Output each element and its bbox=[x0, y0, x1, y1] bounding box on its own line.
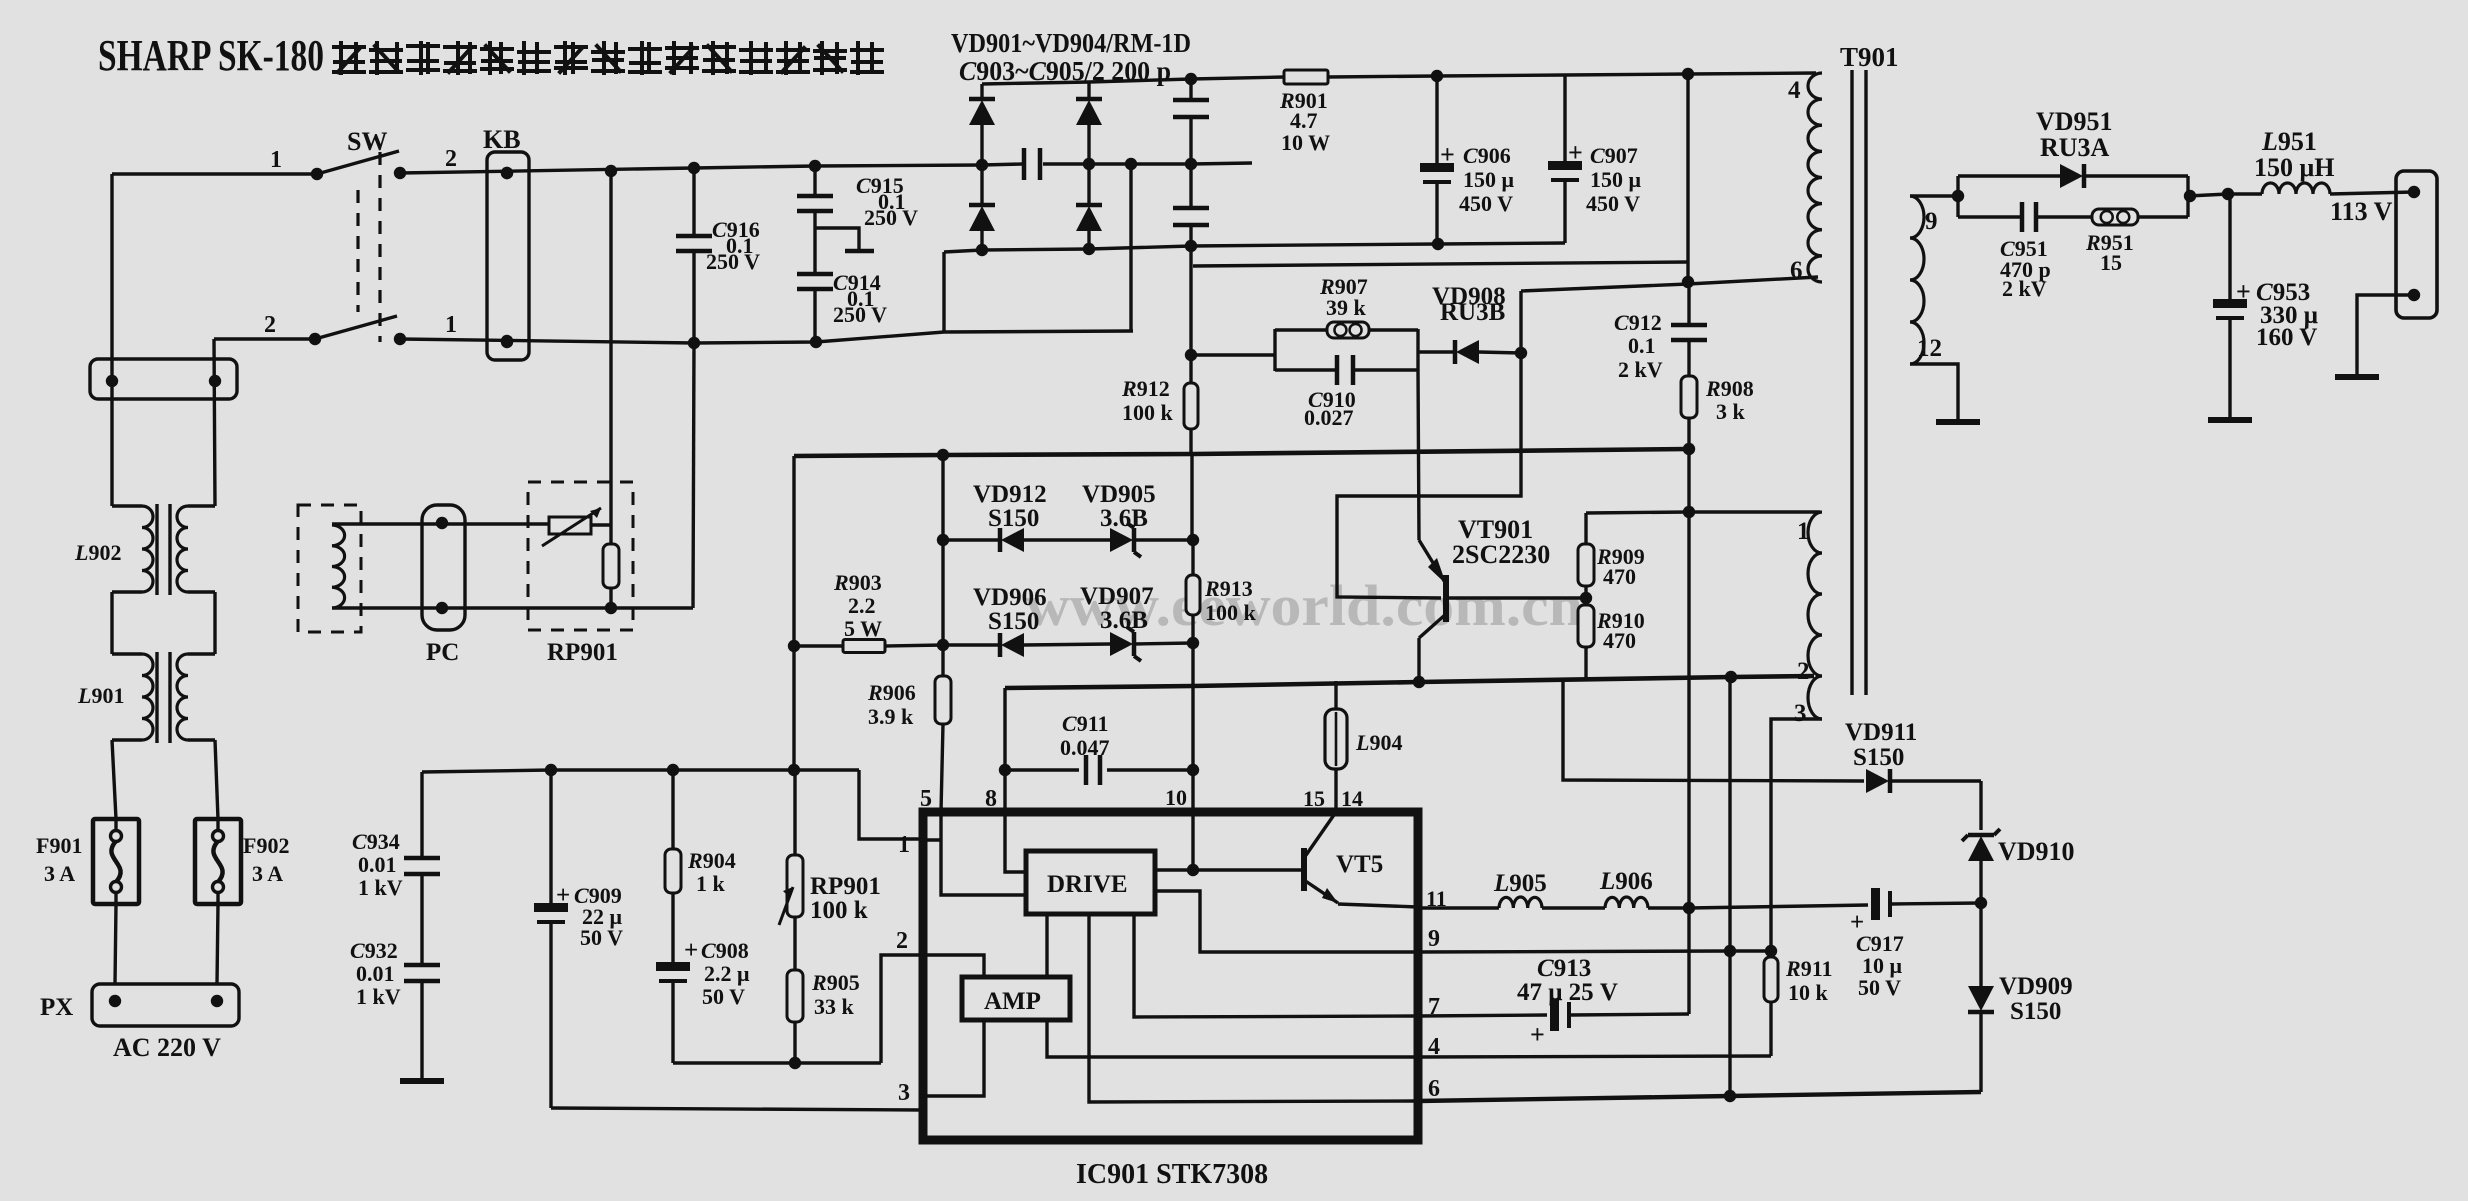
wire connector lower pin to ground bbox=[2357, 295, 2414, 375]
zener VD910 bbox=[1962, 829, 2075, 903]
svg-text:2.2: 2.2 bbox=[848, 593, 876, 618]
diode VD904 bbox=[1076, 164, 1102, 249]
inductor L902 bbox=[74, 506, 215, 592]
wire row y1063 bbox=[673, 1061, 881, 1064]
wire corner to VD910 bbox=[1979, 781, 1982, 830]
capacitor C914 bbox=[797, 270, 887, 342]
svg-text:100 k: 100 k bbox=[810, 897, 868, 924]
line filter box bbox=[90, 359, 237, 399]
svg-text:0.027: 0.027 bbox=[1304, 405, 1354, 430]
svg-text:47 μ 25 V: 47 μ 25 V bbox=[1517, 979, 1618, 1006]
wire pin7 row with C913 bbox=[1418, 955, 1689, 1049]
svg-text:0.047: 0.047 bbox=[1060, 735, 1110, 760]
fuse F901 3A bbox=[36, 819, 139, 904]
transformer T901 pin3 tail bbox=[1771, 676, 1822, 951]
wire riser x693 to rail B bbox=[693, 343, 694, 608]
transformer T901 core bbox=[1850, 70, 1853, 695]
inductor L904 bbox=[1325, 681, 1402, 812]
svg-text:15: 15 bbox=[1303, 786, 1325, 811]
node top rail junctions bbox=[1185, 73, 1197, 85]
svg-text:S150: S150 bbox=[1853, 744, 1904, 771]
wire x1730 vertical bbox=[1728, 677, 1731, 1096]
capacitor C912 0.1 2kV bbox=[1614, 285, 1707, 382]
node x1688 pin6 bbox=[1682, 276, 1694, 288]
node row684 emitter junction bbox=[1413, 676, 1425, 688]
wire riser x1688 top rail to pin6 line bbox=[1686, 74, 1689, 282]
svg-text:SW: SW bbox=[347, 127, 387, 156]
ground below C953 bbox=[2208, 417, 2252, 423]
VD951 block left stub bbox=[1956, 176, 1959, 217]
svg-text:VD911: VD911 bbox=[1845, 719, 1917, 746]
svg-text:14: 14 bbox=[1341, 786, 1363, 811]
svg-text:6: 6 bbox=[1428, 1076, 1440, 1102]
svg-text:DRIVE: DRIVE bbox=[1047, 871, 1128, 898]
capacitor C907 150u 450V bbox=[1548, 75, 1642, 243]
parallel combo brackets bbox=[1273, 329, 1276, 371]
wire pin3 row bbox=[551, 1108, 923, 1110]
switch SW pole 1 bbox=[270, 146, 457, 180]
svg-text:VD905: VD905 bbox=[1082, 481, 1156, 508]
svg-text:C913: C913 bbox=[1537, 955, 1591, 982]
svg-text:1: 1 bbox=[270, 147, 282, 173]
capacitor C906 150u 450V bbox=[1420, 76, 1515, 244]
svg-text:150 μ: 150 μ bbox=[1590, 167, 1642, 192]
node x1193 row643 bbox=[1187, 637, 1199, 649]
wire pin9 to VD951 block bbox=[1910, 194, 1958, 197]
svg-text:2: 2 bbox=[896, 928, 908, 954]
wire T901 pin6 line bbox=[1521, 277, 1818, 291]
capacitor C932 0.01 1kV bbox=[350, 938, 440, 1079]
svg-text:39 k: 39 k bbox=[1326, 295, 1367, 320]
svg-text:12: 12 bbox=[1917, 335, 1942, 362]
svg-text:470: 470 bbox=[1603, 628, 1636, 653]
svg-text:250 V: 250 V bbox=[833, 302, 887, 327]
svg-text:8: 8 bbox=[985, 786, 997, 812]
wire right vertical x215 upper bbox=[214, 339, 215, 506]
thermistor in RP901 box bbox=[542, 508, 611, 546]
svg-text:160 V: 160 V bbox=[2256, 324, 2317, 351]
wire line B bbox=[1193, 262, 1688, 266]
svg-text:C907: C907 bbox=[1590, 143, 1638, 168]
ground stub tick bbox=[845, 249, 874, 254]
wire R912 top node line bbox=[1193, 353, 1275, 356]
wire x943 vertical bbox=[941, 455, 944, 540]
wire DRIVE to pin9 row bbox=[1155, 891, 1418, 952]
svg-text:RU3B: RU3B bbox=[1440, 299, 1505, 326]
svg-text:3: 3 bbox=[1794, 700, 1807, 727]
node base pin10 bbox=[1187, 864, 1199, 876]
wire pin2 approach bbox=[881, 955, 923, 1063]
svg-text:33 k: 33 k bbox=[814, 994, 855, 1019]
resistor R910 470 bbox=[1578, 586, 1645, 679]
capacitor C909 22u 50V bbox=[534, 770, 623, 1108]
connector PX AC 220V bbox=[40, 984, 239, 1062]
svg-text:10 k: 10 k bbox=[1788, 980, 1829, 1005]
wire riser C913 to pin11 row bbox=[1687, 908, 1690, 1014]
svg-text:5: 5 bbox=[920, 786, 932, 812]
resistor R911 10k bbox=[1764, 951, 1832, 1056]
transistor VT5 bbox=[1301, 812, 1418, 907]
node x1689 junctions bbox=[1683, 443, 1695, 455]
svg-text:+: + bbox=[1440, 140, 1455, 169]
svg-text:100 k: 100 k bbox=[1122, 400, 1174, 425]
wire block to L951 node bbox=[2188, 194, 2228, 196]
inductor L951 150uH bbox=[2228, 127, 2414, 194]
svg-text:2: 2 bbox=[264, 312, 276, 338]
fuse F902 3A bbox=[195, 819, 289, 904]
potentiometer RP901 100k bbox=[779, 770, 881, 925]
svg-text:113 V: 113 V bbox=[2330, 197, 2393, 226]
svg-text:9: 9 bbox=[1428, 926, 1440, 952]
wire long row y684 bbox=[1005, 676, 1814, 688]
dashed box RP901 thermistor bbox=[528, 482, 633, 630]
switch SW pole 2 bbox=[264, 312, 457, 345]
resistor R906 3.9k bbox=[867, 645, 951, 812]
svg-text:450 V: 450 V bbox=[1459, 191, 1513, 216]
svg-text:VD906: VD906 bbox=[973, 584, 1047, 611]
svg-text:+: + bbox=[2236, 277, 2251, 306]
svg-text:R908: R908 bbox=[1705, 376, 1754, 401]
svg-text:2 kV: 2 kV bbox=[2002, 276, 2047, 301]
wire DRIVE to AMP bbox=[1045, 914, 1048, 977]
svg-text:L906: L906 bbox=[1599, 868, 1653, 895]
svg-text:1: 1 bbox=[898, 832, 910, 858]
connector PC bbox=[422, 505, 465, 666]
capacitor C915 bbox=[797, 166, 918, 274]
wire DRIVE to pin7 row bbox=[1134, 914, 1418, 1017]
wire vertical x1689 down to pin11 row bbox=[1687, 418, 1690, 908]
capacitor C951 470p 2kV bbox=[1958, 202, 2092, 301]
svg-text:50 V: 50 V bbox=[1858, 975, 1901, 1000]
DRIVE block bbox=[1026, 851, 1155, 914]
svg-text:3 A: 3 A bbox=[252, 861, 283, 886]
wire pin8 stub bbox=[1005, 770, 1026, 872]
capacitor C908 2.2u 50V bbox=[656, 893, 750, 1063]
svg-text:450 V: 450 V bbox=[1586, 191, 1640, 216]
node RP901 bottom bbox=[605, 602, 617, 614]
svg-text:3.9 k: 3.9 k bbox=[868, 704, 914, 729]
wire pin1 internal bbox=[923, 838, 941, 841]
wire C911 box left bbox=[1003, 688, 1006, 770]
capacitor C910 0.027 bbox=[1275, 355, 1418, 430]
wire vertical x1193 lower bbox=[1191, 643, 1194, 770]
resistor R912 100k bbox=[1121, 246, 1198, 454]
svg-text:S150: S150 bbox=[2010, 998, 2061, 1025]
resistor R951 15 bbox=[2085, 209, 2188, 275]
svg-text:F902: F902 bbox=[243, 833, 289, 858]
transformer T901 secondary pins 9-12 bbox=[1910, 196, 1942, 364]
wire pin6 row exterior bbox=[1418, 1092, 1981, 1101]
svg-text:3.6B: 3.6B bbox=[1100, 505, 1148, 532]
diode VD911 S150 bbox=[1845, 719, 1981, 793]
wire negative rail bbox=[944, 243, 1565, 252]
capacitor C911 0.047 bbox=[999, 711, 1199, 785]
choke core bars L901 bbox=[155, 652, 158, 743]
node R903 left bbox=[788, 640, 800, 652]
resistor R901 4.7 10W bbox=[1279, 70, 1330, 155]
wire row y540 VD912 VD905 bbox=[937, 481, 1193, 557]
svg-text:1 kV: 1 kV bbox=[358, 875, 403, 900]
svg-text:0.1: 0.1 bbox=[1628, 333, 1656, 358]
svg-text:L905: L905 bbox=[1493, 870, 1547, 897]
wire riser rail B to negative rail at x944 bbox=[942, 252, 945, 332]
wire vertical x794 bbox=[792, 456, 795, 646]
svg-text:R906: R906 bbox=[867, 680, 916, 705]
svg-text:AC 220 V: AC 220 V bbox=[113, 1033, 221, 1062]
svg-text:AMP: AMP bbox=[984, 988, 1041, 1015]
svg-text:L901: L901 bbox=[77, 683, 124, 708]
wire choke to fuses bbox=[112, 740, 116, 819]
svg-text:R911: R911 bbox=[1785, 956, 1832, 981]
capacitor C953 330u 160V bbox=[2213, 194, 2318, 418]
svg-text:T901: T901 bbox=[1840, 42, 1899, 72]
svg-text:3: 3 bbox=[898, 1080, 910, 1106]
svg-text:S150: S150 bbox=[988, 505, 1039, 532]
diode VD902 bbox=[969, 165, 995, 250]
svg-text:5 W: 5 W bbox=[844, 616, 882, 641]
wire pin11 row to C917 bbox=[1689, 905, 1868, 908]
capacitor C905 bbox=[1173, 164, 1209, 246]
wire rail B switch2 to bridge lower bbox=[400, 331, 1133, 343]
svg-text:4: 4 bbox=[1788, 77, 1801, 104]
diode VD903 bbox=[1076, 82, 1102, 164]
svg-text:R903: R903 bbox=[833, 570, 882, 595]
node VD908 right bbox=[1515, 347, 1527, 359]
resistor R907 39k bbox=[1275, 274, 1418, 338]
node output clamp mid bbox=[1975, 897, 1987, 909]
wire row y453 bbox=[794, 449, 1689, 456]
wire rail A from switch to bridge bbox=[400, 164, 1022, 173]
svg-text:100 k: 100 k bbox=[1205, 600, 1257, 625]
node R905 bottom bbox=[789, 1057, 801, 1069]
wire AMP to pin4 row bbox=[1047, 1020, 1418, 1057]
svg-text:C932: C932 bbox=[350, 938, 398, 963]
node row770 junctions bbox=[545, 764, 557, 776]
capacitor C916 bbox=[676, 168, 760, 343]
svg-text:50 V: 50 V bbox=[702, 984, 745, 1009]
svg-text:VD909: VD909 bbox=[1999, 973, 2073, 1000]
svg-text:1 kV: 1 kV bbox=[356, 984, 401, 1009]
svg-text:+: + bbox=[684, 937, 698, 964]
choke core bars L902 bbox=[155, 504, 158, 595]
node R909 R910 mid bbox=[1580, 592, 1592, 604]
ground below connector bbox=[2335, 374, 2379, 380]
wire vertical x611 railA to RP901 box bbox=[609, 171, 612, 544]
capacitor C903 inline on rail A bbox=[1022, 148, 1027, 180]
capacitor C904 bbox=[1173, 79, 1209, 164]
svg-text:150 μH: 150 μH bbox=[2254, 153, 2334, 182]
wire PC top line bbox=[332, 522, 549, 525]
wire pin5 stub bbox=[941, 812, 1026, 895]
diode VD901 bbox=[969, 84, 995, 165]
inductor L901 bbox=[77, 654, 215, 740]
svg-text:+: + bbox=[556, 882, 570, 909]
wire C915 C914 mid stub bbox=[815, 228, 859, 251]
svg-text:10: 10 bbox=[1165, 785, 1187, 810]
svg-text:2: 2 bbox=[445, 146, 457, 172]
resistor R905 33k bbox=[787, 917, 860, 1063]
svg-text:50 V: 50 V bbox=[580, 925, 623, 950]
svg-text:KB: KB bbox=[483, 125, 521, 154]
capacitor C917 10u 50V bbox=[1850, 888, 1981, 1000]
svg-text:470: 470 bbox=[1603, 564, 1636, 589]
wire left vertical x112 upper bbox=[110, 174, 113, 506]
wire row y645 VD906 VD907 bbox=[937, 583, 1193, 661]
svg-text:C911: C911 bbox=[1062, 711, 1108, 736]
svg-text:1: 1 bbox=[1797, 518, 1810, 545]
VD951 block right stub bbox=[2186, 176, 2189, 217]
svg-text:250 V: 250 V bbox=[864, 205, 918, 230]
wire fuses to PX bbox=[115, 904, 116, 984]
dashed box around PC lamp bbox=[298, 505, 361, 632]
wire vertical x1521 pin6line to VT901 base path bbox=[1337, 291, 1521, 598]
svg-text:+: + bbox=[1530, 1020, 1545, 1049]
title text SHARP SK-180 bbox=[98, 31, 882, 80]
wire DRIVE to pin6 row bbox=[1089, 914, 1418, 1102]
wire bridge top rail to T901 pin4 bbox=[982, 77, 1284, 84]
svg-text:C912: C912 bbox=[1614, 310, 1662, 335]
wire AMP to pin3 bbox=[923, 1020, 984, 1096]
svg-text:2 kV: 2 kV bbox=[1618, 357, 1663, 382]
svg-text:R913: R913 bbox=[1204, 576, 1253, 601]
svg-text:2SC2230: 2SC2230 bbox=[1452, 540, 1550, 569]
svg-text:6: 6 bbox=[1790, 257, 1803, 284]
svg-text:VD951: VD951 bbox=[2036, 107, 2113, 136]
wire pin2 internal bbox=[923, 955, 984, 977]
node R912 top bbox=[1185, 349, 1197, 361]
svg-text:C908: C908 bbox=[701, 938, 749, 963]
transistor VT901 2SC2230 bbox=[1418, 371, 1584, 682]
wire rail A left segment bbox=[112, 172, 317, 175]
switch SW label and mechanical link dashes bbox=[347, 127, 387, 342]
wire row y512 to T901 pin1 bbox=[1586, 512, 1820, 513]
wire VD911 feed bbox=[1563, 681, 1864, 781]
svg-text:1: 1 bbox=[445, 312, 457, 338]
svg-text:S150: S150 bbox=[988, 608, 1039, 635]
svg-text:15: 15 bbox=[2100, 250, 2122, 275]
svg-text:C906: C906 bbox=[1463, 143, 1511, 168]
svg-text:L951: L951 bbox=[2261, 127, 2317, 156]
coil lamp in PC dashed box bbox=[332, 525, 345, 608]
node negative rail junctions bbox=[976, 244, 988, 256]
svg-text:L902: L902 bbox=[74, 540, 121, 565]
node rail A junctions bbox=[501, 167, 513, 179]
svg-text:250 V: 250 V bbox=[706, 249, 760, 274]
svg-text:10 W: 10 W bbox=[1281, 130, 1330, 155]
svg-text:VD907: VD907 bbox=[1080, 583, 1154, 610]
svg-text:RP901: RP901 bbox=[810, 873, 881, 900]
svg-text:L904: L904 bbox=[1355, 730, 1402, 755]
capacitor C934 0.01 1kV bbox=[352, 772, 440, 965]
wire pin4 row exterior bbox=[1418, 1056, 1771, 1057]
wire row y770 left bbox=[422, 770, 859, 772]
wire between chokes bbox=[110, 592, 113, 654]
resistor R904 1k bbox=[665, 770, 736, 896]
svg-text:IC901 STK7308: IC901 STK7308 bbox=[1076, 1159, 1268, 1190]
svg-text:150 μ: 150 μ bbox=[1463, 167, 1515, 192]
ground below C932 bbox=[400, 1078, 444, 1084]
output connector bbox=[2396, 171, 2437, 318]
svg-text:VD901~VD904/RM-1D: VD901~VD904/RM-1D bbox=[951, 28, 1191, 58]
wire pin12 to ground bbox=[1910, 364, 1958, 420]
svg-text:3 A: 3 A bbox=[44, 861, 75, 886]
wire pin1 approach bbox=[859, 770, 923, 839]
wire pin11 row with L905 L906 bbox=[1418, 868, 1689, 908]
diode VD908 RU3B bbox=[1418, 283, 1521, 364]
resistor R903 2.2 5W bbox=[794, 570, 943, 653]
resistor R908 3k bbox=[1681, 376, 1754, 424]
svg-text:RU3A: RU3A bbox=[2040, 133, 2110, 162]
resistor R909 470 bbox=[1578, 513, 1645, 589]
svg-text:2: 2 bbox=[1797, 658, 1810, 685]
node rail B junctions bbox=[501, 335, 513, 347]
node row684 x1731 bbox=[1725, 671, 1737, 683]
svg-text:2.2 μ: 2.2 μ bbox=[704, 961, 750, 986]
wire VT5 base from DRIVE bbox=[1155, 868, 1301, 871]
connector KB bbox=[483, 125, 529, 360]
wire rail A right of C903 bbox=[1043, 163, 1252, 164]
diode VD951 RU3A bbox=[1958, 107, 2188, 188]
svg-text:+: + bbox=[1568, 138, 1583, 167]
diode VD909 S150 bbox=[1968, 903, 2073, 1092]
wire vertical x1192 mid bbox=[1190, 454, 1193, 540]
transformer T901 primary winding pins 4-6 bbox=[1788, 73, 1822, 284]
svg-text:SHARP SK-180: SHARP SK-180 bbox=[98, 31, 324, 80]
svg-text:PX: PX bbox=[40, 994, 73, 1021]
svg-text:VD912: VD912 bbox=[973, 481, 1047, 508]
wire pin9 row exterior bbox=[1418, 951, 1771, 952]
svg-text:VD910: VD910 bbox=[1998, 837, 2075, 866]
resistor R913 100k bbox=[1186, 534, 1257, 643]
wire switch2 line to left vertical bbox=[214, 337, 315, 340]
svg-text:0.01: 0.01 bbox=[358, 852, 397, 877]
wire pin10 stub bbox=[1191, 770, 1194, 870]
resistor in RP901 box bbox=[603, 544, 619, 588]
svg-text:R912: R912 bbox=[1121, 376, 1170, 401]
svg-text:F901: F901 bbox=[36, 833, 82, 858]
svg-text:PC: PC bbox=[426, 639, 459, 666]
svg-text:R905: R905 bbox=[811, 970, 860, 995]
ground below pin12 bbox=[1936, 419, 1980, 425]
svg-text:1 k: 1 k bbox=[696, 871, 726, 896]
svg-text:0.01: 0.01 bbox=[356, 961, 395, 986]
svg-text:RP901: RP901 bbox=[547, 639, 618, 666]
node x794 row770 bbox=[788, 764, 800, 776]
transformer T901 secondary pins 1-2 bbox=[1797, 512, 1822, 685]
svg-text:9: 9 bbox=[1925, 208, 1938, 235]
AMP block bbox=[962, 977, 1070, 1020]
IC901 STK7308 box bbox=[923, 812, 1418, 1140]
wire riser rail A to rail B at x1131 bbox=[1129, 164, 1132, 331]
svg-text:3.6B: 3.6B bbox=[1100, 607, 1148, 634]
svg-text:VT5: VT5 bbox=[1336, 851, 1383, 878]
svg-text:3 k: 3 k bbox=[1716, 399, 1746, 424]
svg-text:C934: C934 bbox=[352, 829, 400, 854]
wire PC bottom line bbox=[332, 606, 693, 609]
wire resistor to bottom bbox=[609, 588, 612, 608]
svg-text:R904: R904 bbox=[687, 848, 736, 873]
